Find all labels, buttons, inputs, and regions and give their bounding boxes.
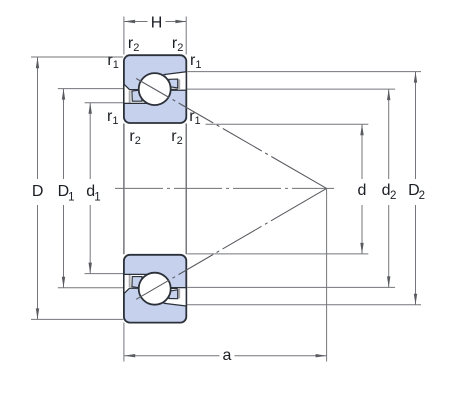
svg-text:H: H [151, 15, 163, 32]
svg-text:d: d [358, 182, 367, 199]
svg-text:D: D [32, 183, 44, 200]
svg-text:a: a [223, 347, 232, 364]
